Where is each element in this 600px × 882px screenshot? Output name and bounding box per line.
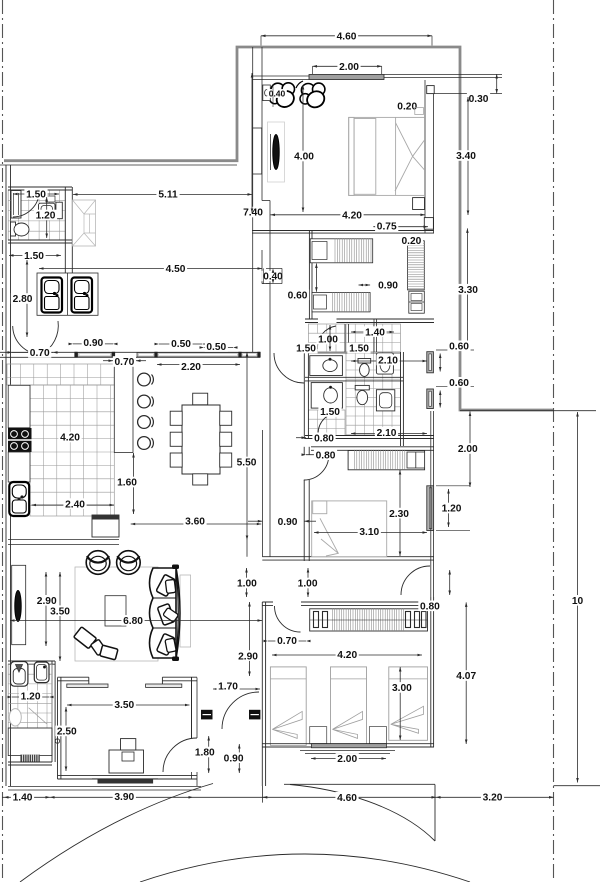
svg-text:5.11: 5.11 <box>158 190 178 201</box>
svg-text:1.00: 1.00 <box>237 579 257 590</box>
svg-text:3.30: 3.30 <box>458 285 478 296</box>
svg-text:3.60: 3.60 <box>185 517 205 528</box>
svg-text:0.30: 0.30 <box>469 94 489 105</box>
svg-text:0.60: 0.60 <box>449 378 469 389</box>
svg-text:0.40: 0.40 <box>269 89 286 99</box>
svg-text:2.00: 2.00 <box>339 62 359 73</box>
svg-text:4.20: 4.20 <box>337 650 357 661</box>
svg-text:1.60: 1.60 <box>117 478 137 489</box>
svg-text:4.60: 4.60 <box>337 31 357 42</box>
svg-text:2.10: 2.10 <box>378 356 398 367</box>
svg-text:2.30: 2.30 <box>389 509 409 520</box>
svg-text:3.40: 3.40 <box>456 151 476 162</box>
svg-text:2.00: 2.00 <box>337 754 357 765</box>
svg-text:5.50: 5.50 <box>237 458 257 469</box>
svg-text:0.90: 0.90 <box>83 338 103 349</box>
svg-text:2.50: 2.50 <box>57 727 77 738</box>
svg-text:2.10: 2.10 <box>377 428 397 439</box>
svg-text:1.40: 1.40 <box>13 793 33 804</box>
svg-text:0.75: 0.75 <box>377 222 397 233</box>
svg-text:0.60: 0.60 <box>288 290 308 301</box>
svg-text:1.20: 1.20 <box>36 211 56 222</box>
svg-text:0.90: 0.90 <box>224 753 244 764</box>
svg-text:2.90: 2.90 <box>238 651 258 662</box>
svg-text:10: 10 <box>572 596 584 607</box>
svg-text:0.70: 0.70 <box>277 636 297 647</box>
svg-text:4.20: 4.20 <box>342 210 362 221</box>
svg-text:2.90: 2.90 <box>37 596 57 607</box>
svg-text:3.10: 3.10 <box>359 527 379 538</box>
svg-text:0.90: 0.90 <box>378 281 398 292</box>
svg-text:0.70: 0.70 <box>114 357 134 368</box>
svg-text:7.40: 7.40 <box>243 208 263 219</box>
svg-text:1.00: 1.00 <box>318 335 338 346</box>
svg-text:0.50: 0.50 <box>206 342 226 353</box>
svg-text:0.80: 0.80 <box>316 450 336 461</box>
svg-text:4.20: 4.20 <box>60 433 80 444</box>
svg-text:3.90: 3.90 <box>114 792 134 803</box>
svg-text:1.80: 1.80 <box>195 748 215 759</box>
svg-text:0.90: 0.90 <box>278 517 298 528</box>
svg-text:1.50: 1.50 <box>320 407 340 418</box>
svg-text:2.20: 2.20 <box>181 362 201 373</box>
svg-text:1.70: 1.70 <box>218 682 238 693</box>
svg-text:4.50: 4.50 <box>166 264 186 275</box>
svg-text:6.80: 6.80 <box>123 616 143 627</box>
svg-text:4.60: 4.60 <box>337 793 357 804</box>
svg-text:3.50: 3.50 <box>50 606 70 617</box>
svg-text:3.00: 3.00 <box>392 683 412 694</box>
svg-text:3.50: 3.50 <box>114 700 134 711</box>
svg-text:2.80: 2.80 <box>13 294 33 305</box>
svg-text:0.20: 0.20 <box>397 101 417 112</box>
svg-text:3.20: 3.20 <box>483 792 503 803</box>
svg-text:0.80: 0.80 <box>314 433 334 444</box>
svg-text:2.40: 2.40 <box>65 499 85 510</box>
svg-text:4.07: 4.07 <box>456 671 476 682</box>
svg-text:1.50: 1.50 <box>26 190 46 201</box>
svg-text:0.60: 0.60 <box>449 341 469 352</box>
svg-text:1.20: 1.20 <box>442 504 462 515</box>
svg-text:1.20: 1.20 <box>21 692 41 703</box>
svg-text:1.00: 1.00 <box>298 579 318 590</box>
svg-text:0.20: 0.20 <box>401 236 421 247</box>
svg-text:0.80: 0.80 <box>420 601 440 612</box>
svg-text:1.40: 1.40 <box>365 327 385 338</box>
svg-text:4.00: 4.00 <box>294 152 314 163</box>
svg-text:0.70: 0.70 <box>30 348 50 359</box>
svg-text:2.00: 2.00 <box>458 444 478 455</box>
svg-text:1.50: 1.50 <box>349 344 369 355</box>
svg-text:0.50: 0.50 <box>171 339 191 350</box>
svg-text:1.50: 1.50 <box>296 344 316 355</box>
